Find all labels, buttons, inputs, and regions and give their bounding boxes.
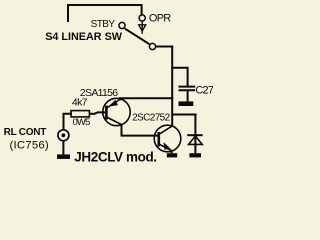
ground (RL CONT) [57, 154, 70, 159]
wire main rail (vertical) [171, 47, 173, 127]
svg-text:2SC2752: 2SC2752 [132, 112, 171, 123]
resistor R (4k7 0W5) [71, 111, 89, 117]
switch S4 OPR terminal [139, 15, 145, 21]
switch S4 STBY terminal [119, 22, 125, 28]
transistor Q1 2SA1156 (PNP) [95, 98, 131, 125]
transistor Q2 2SC2752 (NPN) [154, 125, 181, 152]
svg-text:C27: C27 [195, 84, 213, 96]
wire branch to C27 [172, 68, 187, 86]
terminal RL CONT [58, 130, 69, 141]
switch arrow at OPR [139, 22, 146, 34]
wire Q1 collector to Q2 base [122, 125, 159, 136]
wire Q2 emitter to ground [171, 151, 173, 153]
switch lever [125, 29, 150, 44]
capacitor C27 [179, 87, 196, 102]
ground (Q2 emitter) [167, 153, 177, 157]
svg-text:4k7: 4k7 [72, 96, 88, 108]
wire 2SA1156 emitter to rail [120, 98, 172, 99]
ground (C27) [179, 101, 194, 106]
wire branch to diode [172, 114, 195, 116]
svg-text:(IC756): (IC756) [10, 140, 49, 152]
wire resistor to RL CONT terminal [64, 114, 72, 129]
svg-text:RL CONT: RL CONT [4, 127, 47, 138]
ground (diode) [189, 153, 201, 157]
svg-text:OPR: OPR [149, 13, 171, 25]
wire terminal to ground [62, 141, 64, 154]
wire from S4 feed bracket [68, 5, 142, 21]
diode D1 [187, 115, 202, 154]
svg-text:S4 LINEAR SW: S4 LINEAR SW [45, 31, 123, 43]
switch pole [149, 43, 155, 49]
wire pole to main rail [156, 46, 172, 48]
svg-text:STBY: STBY [91, 19, 116, 30]
svg-text:0W5: 0W5 [73, 117, 90, 128]
svg-text:JH2CLV mod.: JH2CLV mod. [74, 149, 156, 164]
